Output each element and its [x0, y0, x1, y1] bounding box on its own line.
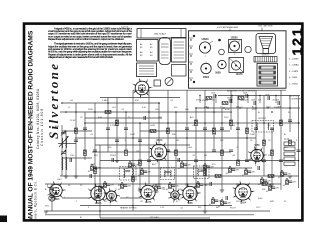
- cluster resistor: [181, 163, 184, 168]
- cluster resistor: [286, 180, 289, 185]
- IF can input: [229, 40, 242, 53]
- dial box divider: [180, 29, 182, 38]
- wire: [175, 112, 177, 190]
- coil: [65, 138, 68, 148]
- svg-text:OSC. SECTION: OSC. SECTION: [258, 26, 273, 28]
- svg-text:.05: .05: [201, 170, 204, 172]
- junction: [261, 177, 262, 178]
- capacitor C31: [210, 182, 212, 186]
- svg-text:12BA6: 12BA6: [95, 202, 103, 205]
- junction: [289, 107, 291, 109]
- resistor R4: [116, 120, 119, 126]
- core line: [199, 169, 204, 171]
- svg-text:1.4V: 1.4V: [160, 207, 165, 209]
- speaker shading: [262, 45, 271, 47]
- junction: [158, 102, 160, 104]
- choke slat: [259, 81, 276, 84]
- junction: [107, 102, 109, 104]
- svg-text:.05: .05: [88, 171, 91, 173]
- svg-text:.05: .05: [266, 191, 269, 193]
- wire: [100, 217, 210, 219]
- wire: [120, 197, 142, 199]
- capacitor C12: [203, 128, 207, 130]
- cluster capacitor: [183, 164, 187, 166]
- speaker outline: [256, 34, 276, 54]
- junction: [246, 137, 248, 139]
- junction: [204, 122, 206, 124]
- tube top 12BE6: [230, 41, 240, 51]
- junction: [269, 184, 270, 185]
- svg-text:12AT6: 12AT6: [236, 73, 243, 76]
- svg-text:455: 455: [174, 107, 177, 109]
- coil: [65, 157, 68, 170]
- capacitor C26: [70, 158, 72, 162]
- resistor R9: [195, 120, 198, 126]
- resistor R10: [204, 170, 207, 176]
- svg-text:PILOT: PILOT: [230, 208, 237, 210]
- wire: [230, 90, 232, 130]
- capacitor top band: [230, 99, 232, 103]
- resistor R20: [99, 186, 102, 192]
- svg-text:1: 1: [204, 56, 205, 58]
- coil: [132, 169, 133, 177]
- wire: [94, 103, 96, 198]
- svg-text:100K: 100K: [211, 93, 216, 95]
- tube socket V3: [139, 184, 157, 202]
- core line: [165, 171, 170, 173]
- ground: [44, 211, 48, 213]
- wire: [221, 108, 223, 190]
- resistor R1: [75, 128, 78, 134]
- cluster resistor: [281, 172, 284, 177]
- cluster capacitor: [123, 185, 127, 187]
- gang tooth: [263, 57, 265, 63]
- junction: [148, 111, 150, 113]
- cluster resistor: [269, 186, 272, 191]
- capacitor C18: [254, 128, 258, 130]
- tube socket V2: [89, 185, 107, 203]
- svg-text:voltages shown on diagram are: voltages shown on diagram are measured t…: [48, 55, 113, 59]
- capacitor C33: [258, 166, 260, 170]
- tube socket V2b: [105, 189, 119, 203]
- core line: [165, 172, 170, 174]
- resistor R19: [289, 140, 292, 146]
- wire: [213, 96, 215, 151]
- wire: [280, 90, 282, 190]
- wire: [196, 107, 300, 109]
- output transformer: [252, 121, 274, 133]
- svg-text:G A N G: G A N G: [262, 53, 269, 56]
- junction: [186, 137, 188, 139]
- core line: [125, 170, 130, 172]
- tie wire: [247, 96, 249, 104]
- junction: [167, 122, 169, 124]
- tube top 12AT6: [231, 61, 240, 70]
- junction: [181, 161, 182, 162]
- svg-text:100K: 100K: [244, 100, 249, 102]
- svg-text:50B5: 50B5: [215, 73, 221, 75]
- detail line: [161, 43, 169, 45]
- speaker shading: [261, 40, 271, 42]
- junction: [212, 197, 213, 198]
- capacitor C14: [220, 128, 224, 130]
- ground: [236, 184, 240, 186]
- resistor R18: [280, 120, 283, 126]
- detail line: [174, 47, 185, 49]
- wire: [255, 90, 257, 150]
- svg-text:R12: R12: [284, 147, 288, 149]
- gang tooth: [265, 57, 267, 63]
- svg-text:Repeat these adjustments until: Repeat these adjustments until no furthe…: [48, 37, 124, 41]
- junction: [259, 95, 260, 96]
- junction: [204, 163, 205, 164]
- svg-text:ANT.: ANT.: [55, 125, 60, 128]
- wire: [271, 128, 273, 184]
- choke slat: [259, 71, 276, 74]
- wire: [140, 130, 230, 132]
- svg-text:ALIGNMENT POINTS SHOWN: ALIGNMENT POINTS SHOWN: [227, 89, 255, 92]
- detail line: [139, 68, 154, 70]
- cluster capacitor: [206, 166, 210, 168]
- ground: [115, 161, 119, 163]
- dial box divider: [140, 29, 142, 38]
- svg-text:455KC: 455KC: [110, 155, 117, 157]
- junction: [298, 122, 300, 124]
- capacitor C23: [297, 150, 301, 152]
- wire: [45, 214, 254, 216]
- svg-text:121: 121: [289, 26, 305, 55]
- IF can diagonal: [229, 58, 244, 73]
- output transformer can: [172, 38, 187, 63]
- svg-text:SW1: SW1: [270, 201, 274, 203]
- junction: [99, 210, 101, 212]
- detail line: [139, 65, 154, 67]
- 2nd IF TRANS: [161, 168, 175, 180]
- svg-text:50B5: 50B5: [254, 145, 260, 147]
- svg-text:.05: .05: [138, 175, 141, 177]
- svg-text:117V: 117V: [256, 207, 261, 209]
- leader line: [229, 29, 231, 32]
- svg-text:.05: .05: [194, 188, 197, 190]
- svg-text:OUTPUT: OUTPUT: [258, 118, 267, 120]
- cluster resistor: [141, 170, 144, 175]
- wire: [100, 97, 180, 99]
- resistor R7: [167, 128, 170, 134]
- junction: [298, 160, 300, 162]
- ground: [203, 211, 207, 213]
- wire: [62, 102, 160, 104]
- svg-text:12AT6: 12AT6: [145, 201, 152, 204]
- wire: [85, 122, 300, 124]
- junction: [169, 182, 170, 183]
- coil: [204, 169, 207, 177]
- svg-text:1M: 1M: [176, 140, 179, 142]
- svg-text:10K: 10K: [185, 109, 189, 111]
- capacitor top band: [214, 94, 216, 98]
- wire: [60, 111, 230, 113]
- svg-text:9: 9: [47, 185, 48, 187]
- resistor R12: [221, 150, 224, 156]
- svg-text:100K: 100K: [227, 98, 232, 100]
- tie wire: [199, 96, 201, 104]
- svg-text:3-30: 3-30: [142, 107, 146, 109]
- cluster resistor: [121, 184, 124, 189]
- wire: [125, 112, 127, 150]
- can internal marks: [161, 51, 169, 53]
- junction: [255, 107, 257, 109]
- svg-text:.05: .05: [178, 168, 181, 170]
- svg-text:12BA6: 12BA6: [201, 38, 209, 41]
- resistor R15: [246, 128, 249, 134]
- capacitor C19: [262, 160, 266, 162]
- svg-text:3.3 MEG: 3.3 MEG: [200, 100, 208, 102]
- svg-text:Chassis 101.808: Chassis 101.808: [40, 109, 44, 146]
- junction: [245, 168, 246, 169]
- svg-text:100K: 100K: [251, 100, 256, 102]
- capacitor C20: [270, 128, 274, 130]
- cluster capacitor: [263, 180, 267, 182]
- svg-text:.05: .05: [126, 168, 129, 170]
- svg-text:3: 3: [88, 207, 89, 209]
- svg-text:2: 2: [76, 201, 77, 203]
- detail line: [161, 46, 169, 48]
- wire: [167, 90, 169, 176]
- capacitor C17: [245, 160, 249, 162]
- svg-text:5 - 35W4: 5 - 35W4: [289, 83, 298, 85]
- filter choke stack: [257, 64, 278, 87]
- junction: [116, 122, 118, 124]
- ground: [74, 176, 78, 178]
- cluster capacitor: [199, 184, 203, 186]
- svg-text:.05: .05: [258, 184, 261, 186]
- resistor R14: [237, 160, 240, 166]
- ground: [270, 184, 274, 186]
- svg-text:.05: .05: [278, 177, 281, 179]
- svg-text:VOL.: VOL.: [45, 206, 50, 208]
- wire: [132, 90, 134, 211]
- svg-text:6.8K: 6.8K: [98, 117, 103, 119]
- cluster capacitor: [271, 187, 275, 189]
- wire: [80, 205, 232, 207]
- cluster capacitor: [283, 173, 287, 175]
- wire: [263, 96, 265, 177]
- svg-text:220K: 220K: [88, 109, 93, 111]
- junction: [223, 107, 224, 108]
- cluster capacitor: [171, 185, 175, 187]
- resistor R22: [206, 97, 212, 100]
- wire: [168, 151, 231, 153]
- tie wire: [215, 96, 217, 104]
- svg-text:47K: 47K: [135, 100, 139, 102]
- trimmer hole: [245, 46, 251, 52]
- wire: [237, 96, 239, 163]
- svg-text:100K: 100K: [275, 100, 280, 102]
- resistor R5: [125, 150, 128, 156]
- svg-text:.02: .02: [240, 107, 243, 109]
- capacitor C6: [124, 128, 128, 130]
- junction: [175, 111, 177, 113]
- svg-text:12BA6: 12BA6: [156, 139, 164, 142]
- svg-text:.05: .05: [118, 189, 121, 191]
- junction: [65, 111, 67, 113]
- junction: [75, 111, 77, 113]
- dial assembly box: [137, 29, 186, 38]
- svg-text:.05: .05: [226, 173, 229, 175]
- trimmer capacitor: [61, 131, 66, 136]
- cluster capacitor: [247, 171, 251, 173]
- junction: [132, 137, 134, 139]
- tube V4 50B5 symbol: [249, 147, 265, 163]
- svg-text:4 - 50B5: 4 - 50B5: [289, 77, 298, 79]
- resistor R24: [238, 97, 244, 100]
- junction: [267, 107, 268, 108]
- junction: [215, 95, 216, 96]
- cluster resistor: [212, 199, 215, 204]
- junction: [221, 199, 222, 200]
- capacitor top band: [268, 96, 270, 100]
- svg-text:TO B MINUS: TO B MINUS: [289, 98, 301, 100]
- svg-text:470K: 470K: [225, 109, 230, 111]
- cluster resistor: [204, 165, 207, 170]
- svg-text:.05: .05: [242, 175, 245, 177]
- ground: [185, 184, 189, 186]
- tube V2 12BA6 symbol: [150, 142, 169, 161]
- svg-text:5: 5: [205, 62, 206, 64]
- wire: [92, 151, 150, 153]
- junction: [125, 111, 127, 113]
- capacitor C22: [288, 120, 292, 122]
- junction: [207, 107, 208, 108]
- svg-text:2W: 2W: [204, 155, 207, 157]
- wire: [62, 197, 90, 199]
- wire: [289, 96, 291, 133]
- tie wire: [231, 96, 233, 104]
- resistor R16: [263, 140, 266, 146]
- svg-text:3 - 12AT6: 3 - 12AT6: [289, 70, 299, 73]
- wire: [45, 183, 281, 185]
- choke slat: [259, 76, 276, 79]
- coil: [256, 123, 259, 131]
- resistor R25: [105, 111, 111, 114]
- capacitor C9: [166, 150, 170, 152]
- tube socket V5: [234, 182, 254, 202]
- capacitor C5: [115, 140, 119, 142]
- resistor R8: [175, 150, 178, 156]
- svg-text:.0001: .0001: [150, 125, 156, 127]
- junction: [132, 205, 134, 207]
- filter can: [159, 38, 171, 65]
- svg-text:6: 6: [36, 204, 37, 206]
- capacitor C8: [147, 160, 151, 162]
- svg-text:1 MEG: 1 MEG: [102, 100, 109, 102]
- junction: [121, 182, 122, 183]
- terminal strip box: [172, 65, 187, 77]
- cluster capacitor: [214, 200, 218, 202]
- capacitor top band: [278, 101, 280, 105]
- capacitor top band: [254, 101, 256, 105]
- coil: [170, 170, 173, 177]
- coil: [61, 138, 64, 148]
- gang tooth: [267, 57, 269, 63]
- wire: [95, 144, 190, 146]
- trimmer circle: [165, 78, 173, 86]
- speaker shading: [261, 38, 272, 40]
- gang tooth: [259, 57, 261, 63]
- junction: [195, 107, 197, 109]
- cluster capacitor: [157, 187, 161, 189]
- junction: [104, 181, 105, 182]
- wire: [204, 90, 206, 211]
- capacitor C7: [138, 140, 142, 142]
- page border frame: [24, 24, 302, 221]
- resistor R6: [139, 160, 142, 166]
- capacitor C25: [50, 188, 54, 190]
- junction: [141, 168, 142, 169]
- svg-text:L1: L1: [68, 107, 70, 109]
- svg-text:.05: .05: [101, 188, 104, 190]
- capacitor C30: [178, 158, 180, 162]
- capacitor C4: [106, 128, 110, 130]
- wire: [133, 89, 286, 91]
- wire: [100, 160, 299, 162]
- 1st IF TRANS: [120, 167, 137, 181]
- svg-text:.02: .02: [212, 100, 215, 102]
- svg-text:1 - 12BE6: 1 - 12BE6: [289, 59, 299, 61]
- capacitor C13: [212, 150, 216, 152]
- gang tooth: [261, 57, 263, 63]
- junction: [286, 178, 287, 179]
- svg-text:1: 1: [64, 197, 65, 199]
- svg-text:100K: 100K: [243, 93, 248, 95]
- wire: [85, 117, 162, 119]
- resistor R21: [132, 176, 135, 182]
- cluster capacitor: [131, 164, 135, 166]
- svg-text:OSC: OSC: [158, 117, 163, 119]
- tube top 50B5: [218, 60, 226, 68]
- cluster capacitor: [223, 202, 227, 204]
- cluster resistor: [221, 201, 224, 206]
- wire: [218, 95, 300, 97]
- junction: [237, 122, 239, 124]
- junction: [271, 111, 273, 113]
- cluster resistor: [104, 183, 107, 188]
- ground: [93, 198, 97, 200]
- resistor R27: [215, 175, 221, 178]
- wire: [298, 96, 300, 189]
- svg-text:3: 3: [235, 61, 236, 63]
- svg-text:AVC: AVC: [152, 163, 157, 166]
- cluster capacitor: [143, 171, 147, 173]
- wire: [62, 130, 92, 132]
- svg-text:117 V.A.C.: 117 V.A.C.: [150, 216, 160, 219]
- capacitor top band: [246, 94, 248, 98]
- svg-text:.1: .1: [124, 140, 126, 142]
- capacitor C29: [144, 116, 146, 120]
- core line: [199, 170, 204, 172]
- resistor R13: [230, 120, 233, 126]
- junction: [263, 122, 265, 124]
- cluster resistor: [129, 163, 132, 168]
- tube socket top view: [134, 79, 151, 97]
- mounting dot: [193, 35, 195, 37]
- svg-text:12.6V: 12.6V: [70, 120, 76, 122]
- svg-text:.05: .05: [209, 204, 212, 206]
- svg-text:33K: 33K: [172, 134, 176, 136]
- tube socket pilot: [169, 189, 181, 202]
- gang tooth: [257, 57, 259, 63]
- svg-text:S1: S1: [288, 112, 290, 114]
- svg-text:117V: 117V: [268, 155, 273, 157]
